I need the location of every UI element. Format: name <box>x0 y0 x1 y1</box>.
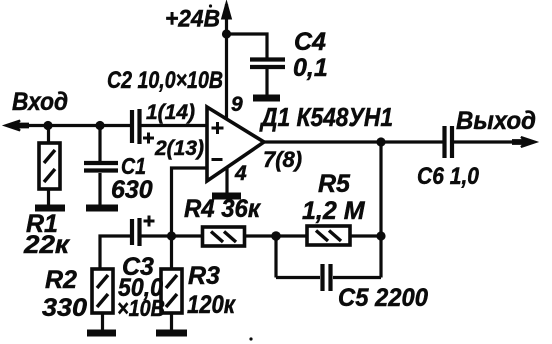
capacitor C5 <box>276 264 381 291</box>
resistor R1 <box>39 126 60 206</box>
power rail +24В with up arrow <box>222 1 232 119</box>
svg-text:Д1 К548УН1: Д1 К548УН1 <box>259 102 393 132</box>
ground (R1) <box>35 205 65 212</box>
value label R5 1,2 М <box>302 170 366 225</box>
svg-text:1,2 М: 1,2 М <box>302 197 366 225</box>
value label R3 120к <box>187 262 236 319</box>
svg-text:R5: R5 <box>318 170 351 198</box>
svg-text:С4: С4 <box>294 28 326 56</box>
ground (C1) <box>86 205 118 212</box>
value label R1 22к <box>23 210 71 259</box>
node inverting junction <box>167 231 176 240</box>
ground (op-amp pin 4) <box>212 193 241 200</box>
wire input horizontal <box>8 124 131 127</box>
value label C4 0,1 <box>293 28 328 82</box>
wire output node down <box>379 142 382 278</box>
svg-text:С2 10,0×10В: С2 10,0×10В <box>107 67 223 94</box>
svg-text:+24В: +24В <box>165 6 220 33</box>
svg-text:R2: R2 <box>45 266 77 294</box>
node +24V junction <box>222 29 231 38</box>
resistor R2 <box>92 269 113 330</box>
svg-text:Выход: Выход <box>456 107 536 135</box>
svg-text:1(14): 1(14) <box>146 101 195 124</box>
svg-text:×10В: ×10В <box>117 295 165 321</box>
wire C5 branch down-left <box>274 236 277 278</box>
wire op-amp pin4 to ground <box>225 168 228 193</box>
wire inverting input <box>172 168 207 236</box>
resistor R4 <box>203 227 245 246</box>
svg-text:Вход: Вход <box>12 88 68 116</box>
capacitor C2 <box>132 109 154 144</box>
svg-text:0,1: 0,1 <box>293 54 328 82</box>
svg-text:4: 4 <box>234 162 247 185</box>
op-amp U1 triangle <box>207 107 264 181</box>
svg-text:С5 2200: С5 2200 <box>338 284 428 312</box>
wire C2 to op-amp + input <box>141 124 206 127</box>
ground (R2) <box>87 330 116 337</box>
value label R2 330 <box>42 266 87 322</box>
capacitor C4 <box>250 60 285 96</box>
ground (C4) <box>253 95 280 102</box>
node feedback right junction <box>376 231 385 240</box>
svg-text:120к: 120к <box>187 291 236 319</box>
svg-text:R3: R3 <box>188 262 220 290</box>
wire output horizontal <box>263 140 443 143</box>
wire R4 to R5 <box>245 234 308 237</box>
capacitor C1 <box>84 126 118 206</box>
wire feedback row left (C3 to R4) <box>141 234 202 237</box>
wire (speck artifacts from scan) <box>209 4 212 7</box>
value label C1 630 <box>111 153 153 204</box>
svg-text:2(13): 2(13) <box>154 137 204 160</box>
svg-text:7(8): 7(8) <box>263 147 302 172</box>
ground (R3) <box>156 330 187 337</box>
node output-terminal arrow <box>513 137 536 147</box>
capacitor C6 <box>445 126 453 158</box>
value label C3 50,0 ×10В <box>117 253 165 321</box>
svg-text:630: 630 <box>111 176 153 204</box>
svg-text:R4 36к: R4 36к <box>184 195 261 223</box>
node B (input / C1) <box>95 121 104 130</box>
node A (input / R1) <box>43 121 52 130</box>
svg-text:330: 330 <box>42 294 87 322</box>
resistor R5 <box>307 226 381 245</box>
wire +24V to C4 <box>227 34 268 58</box>
capacitor C3 <box>100 216 155 270</box>
svg-text:22к: 22к <box>23 231 71 259</box>
node output junction <box>376 137 385 146</box>
svg-text:9: 9 <box>231 93 243 116</box>
svg-text:С6 1,0: С6 1,0 <box>417 163 480 190</box>
wire C6 to output arrow <box>454 140 527 143</box>
node feedback left junction <box>271 231 281 241</box>
node input-terminal arrow <box>5 121 28 131</box>
resistor R3 <box>161 236 182 330</box>
